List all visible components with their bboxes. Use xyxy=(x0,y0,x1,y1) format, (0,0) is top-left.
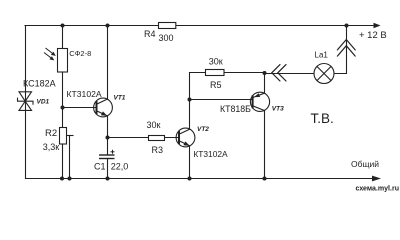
svg-text:КТ3102А: КТ3102А xyxy=(67,89,102,99)
resistor R2 xyxy=(60,128,67,145)
connector break chevrons top pair xyxy=(337,40,355,57)
wire photoresistor to junction xyxy=(62,72,64,108)
arrow common bottom right xyxy=(372,176,381,182)
svg-text:30к: 30к xyxy=(147,120,161,130)
wire VT1 emitter down xyxy=(107,116,109,138)
svg-text:30к: 30к xyxy=(209,57,223,67)
transistor VT1 КТ3102А xyxy=(94,98,113,117)
wire junction to R2 xyxy=(62,108,64,128)
wire junction to R3 xyxy=(108,137,149,139)
node junction top rail / lamp branch xyxy=(345,24,349,28)
wire VT3 base lead xyxy=(190,99,253,101)
wire top rail left segment xyxy=(25,25,159,27)
wire VT3 emitter up to node xyxy=(264,73,266,94)
node junction bottom rail / C1 xyxy=(106,177,110,181)
wire VT3 collector to rail xyxy=(264,111,266,179)
node junction bottom rail / R2 tap xyxy=(68,177,72,181)
svg-text:схема.myl.ru: схема.myl.ru xyxy=(356,184,400,193)
connector break chevrons left pair xyxy=(272,65,286,81)
resistor R4 xyxy=(159,23,176,29)
svg-text:VT3: VT3 xyxy=(272,106,284,113)
transistor VT3 КТ818Б (PNP) xyxy=(250,92,269,111)
zener VD1 КС182А xyxy=(18,92,34,111)
wire C1 top xyxy=(107,138,109,156)
svg-text:СФ2-8: СФ2-8 xyxy=(69,49,91,58)
svg-text:R4: R4 xyxy=(144,29,156,39)
wire R3 to VT2 base xyxy=(165,137,180,139)
node junction dot R5 / VT3 emitter / lamp xyxy=(263,71,267,75)
wire lamp right to corner up xyxy=(334,26,347,74)
wire photoresistor branch upper xyxy=(62,26,64,49)
wire R2 bottom to rail xyxy=(62,144,64,179)
wire bottom rail xyxy=(26,178,373,180)
node junction dot VT2 collector / VT3 base xyxy=(188,98,192,102)
capacitor C1 22,0 xyxy=(99,150,115,159)
svg-text:VT2: VT2 xyxy=(197,126,209,133)
svg-text:+ 12 В: + 12 В xyxy=(359,30,387,41)
wire top rail right segment xyxy=(176,25,374,27)
node junction dot photoresistor / VT1 base xyxy=(61,106,65,110)
wire R2 tap tick xyxy=(67,135,73,137)
node junction bottom rail / R2 xyxy=(60,177,64,181)
node junction top rail / VT1 collector xyxy=(106,24,110,28)
arrow +12V top right xyxy=(374,23,381,29)
lamp La1 xyxy=(314,64,334,84)
svg-text:La1: La1 xyxy=(315,51,329,60)
wire R2 tap vertical xyxy=(69,136,71,179)
svg-text:Т.В.: Т.В. xyxy=(311,111,334,126)
svg-text:3,3к: 3,3к xyxy=(43,142,60,152)
resistor R5 xyxy=(206,70,225,76)
svg-text:КТ818Б: КТ818Б xyxy=(220,104,251,114)
node junction dot VT1 emitter / R3 / C1 xyxy=(106,136,110,140)
wire R5 right to node xyxy=(224,72,265,74)
wire node to lamp xyxy=(265,73,315,75)
node junction top rail / photoresistor branch xyxy=(61,24,65,28)
wire VT1 base lead xyxy=(63,107,97,109)
svg-text:22,0: 22,0 xyxy=(111,162,129,172)
resistor R3 xyxy=(149,136,165,141)
svg-text:300: 300 xyxy=(159,33,174,43)
wire VT2 collector vertical up to R5 corner xyxy=(190,73,207,130)
transistor VT2 КТ3102А xyxy=(176,128,195,147)
svg-text:VT1: VT1 xyxy=(114,95,126,102)
node junction bottom rail / VT2 emitter xyxy=(188,177,192,181)
svg-text:R3: R3 xyxy=(152,145,164,155)
svg-text:C1: C1 xyxy=(94,162,106,172)
wire VT1 collector to top rail xyxy=(107,26,109,100)
svg-text:R5: R5 xyxy=(210,80,222,90)
svg-text:КС182А: КС182А xyxy=(23,79,56,89)
wire C1 bottom xyxy=(107,159,109,179)
photoresistor R1 СФ2-8 xyxy=(58,49,68,73)
wire left vertical xyxy=(25,26,27,179)
svg-text:R2: R2 xyxy=(45,128,57,139)
svg-text:Общий: Общий xyxy=(351,159,379,169)
node junction bottom rail / VT3 collector xyxy=(263,177,267,181)
svg-text:VD1: VD1 xyxy=(37,98,50,105)
svg-text:КТ3102А: КТ3102А xyxy=(193,149,228,159)
wire VT2 emitter to rail xyxy=(189,146,191,179)
